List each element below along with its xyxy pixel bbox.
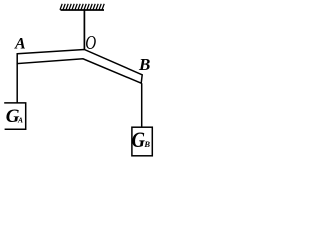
right weight box <box>132 127 152 156</box>
left string from A <box>16 64 18 103</box>
svg-text:A: A <box>14 36 26 53</box>
svg-text:O: O <box>85 31 96 54</box>
right string from B <box>141 83 143 127</box>
support rod at O <box>83 10 85 50</box>
ceiling support line <box>61 9 105 11</box>
left weight box <box>4 103 26 129</box>
svg-text:B: B <box>138 55 150 74</box>
svg-text:B: B <box>143 139 150 149</box>
svg-text:G: G <box>132 129 146 153</box>
svg-text:A: A <box>17 116 23 125</box>
bent lever beam outline <box>17 50 142 84</box>
ceiling hatching <box>60 4 104 10</box>
